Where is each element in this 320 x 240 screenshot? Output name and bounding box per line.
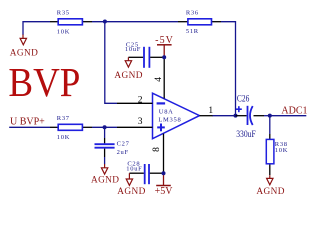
svg-text:R35: R35 (57, 9, 70, 16)
svg-text:4: 4 (154, 77, 164, 82)
svg-text:LM358: LM358 (158, 116, 181, 123)
op-amp U1 (U8A LM358) (117, 57, 213, 173)
ground AGND1 (10, 35, 38, 59)
wire W2: R35 to R36 (92, 21, 178, 23)
wire W1: AGND1 up to R35 left pin (23, 22, 50, 35)
svg-text:AGND: AGND (91, 176, 119, 186)
svg-text:10K: 10K (57, 29, 70, 36)
svg-text:+5V: +5V (155, 186, 174, 197)
wire W7: J2 down to C27 (104, 127, 106, 138)
svg-text:R36: R36 (186, 10, 199, 17)
capacitor C25 (125, 41, 164, 67)
svg-text:C27: C27 (117, 140, 130, 147)
wire W9: C26 to J6 (264, 115, 270, 117)
power +5V (155, 173, 174, 197)
wire W10: J6 to ADC1 (270, 115, 307, 117)
svg-text:AGND: AGND (10, 48, 38, 58)
svg-text:51R: 51R (186, 28, 199, 35)
wire W3: J1 down to op-amp pin 2 (105, 22, 117, 104)
svg-text:1: 1 (208, 106, 213, 116)
capacitor C26 (polarized) (236, 94, 265, 139)
ground AGND4 (below C28) (117, 173, 145, 197)
wire W11: J6 down to R38 (269, 116, 271, 134)
svg-text:AGND: AGND (256, 187, 284, 197)
ground AGND5 (below R38) (256, 175, 284, 197)
svg-text:8: 8 (152, 147, 162, 152)
wire W6: R37 to op-amp pin 3 (92, 126, 117, 128)
svg-text:3: 3 (138, 117, 143, 127)
svg-text:R37: R37 (57, 115, 70, 122)
power -5V (155, 35, 174, 57)
svg-text:10uF: 10uF (125, 46, 141, 53)
svg-text:C26: C26 (237, 94, 250, 104)
svg-text:10K: 10K (275, 147, 288, 154)
junction J3 (162, 55, 166, 59)
resistor R35 (50, 9, 92, 35)
junction J5 (234, 114, 238, 118)
svg-text:10K: 10K (57, 134, 70, 141)
svg-text:330uF: 330uF (236, 130, 256, 140)
svg-text:AGND: AGND (117, 187, 145, 197)
junction J6 (268, 114, 272, 118)
wire W5: U_BVP+ to R37 (9, 126, 50, 128)
wire W8: C27 down to AGND3 (104, 157, 106, 164)
wire W12: op-amp output to J5 (213, 115, 236, 117)
resistor R37 (50, 115, 92, 141)
svg-text:AGND: AGND (114, 71, 142, 81)
junction J4 (162, 171, 166, 175)
svg-text:U8A: U8A (159, 108, 174, 115)
resistor R38 (266, 134, 288, 175)
wire W4: R36 right down to output node J5 (221, 22, 236, 116)
svg-text:2: 2 (138, 96, 143, 106)
capacitor C28 (126, 160, 163, 184)
svg-text:U BVP+: U BVP+ (10, 116, 45, 127)
svg-text:-5V: -5V (155, 35, 174, 46)
resistor R36 (178, 10, 221, 36)
junction J2 (103, 125, 107, 129)
svg-text:BVP: BVP (8, 59, 80, 105)
svg-text:2uF: 2uF (117, 149, 129, 156)
capacitor C27 (95, 138, 130, 157)
junction J1 (103, 20, 107, 24)
ground AGND2 (below C25) (114, 57, 142, 81)
ground AGND3 (below C27) (91, 164, 119, 186)
svg-text:ADC1: ADC1 (281, 105, 307, 116)
svg-text:10uF: 10uF (126, 166, 142, 173)
